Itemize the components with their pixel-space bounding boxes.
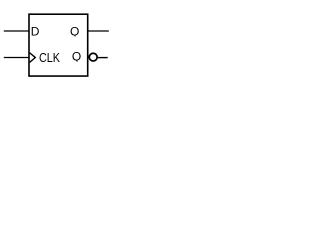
svg-text:Q: Q xyxy=(70,24,79,38)
svg-text:D: D xyxy=(31,25,40,39)
svg-text:CLK: CLK xyxy=(39,50,60,65)
flip-flop body U1 xyxy=(29,14,88,76)
svg-text:Q: Q xyxy=(72,49,81,63)
pin label Q (bottom, inverted output) xyxy=(72,49,81,63)
clock edge triangle xyxy=(30,53,36,63)
wire: CLK input xyxy=(4,57,29,59)
pin label Q (top output) xyxy=(70,24,79,38)
inversion bubble on Q-bar output xyxy=(89,53,97,61)
wire: Q output xyxy=(88,30,109,32)
wire: D input xyxy=(4,30,29,32)
wire: Q-bar output xyxy=(98,57,108,59)
